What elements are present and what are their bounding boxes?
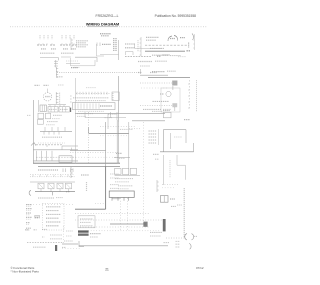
power cord plug [79, 241, 84, 246]
winding dashes [115, 178, 133, 180]
terminal dash box [110, 184, 119, 186]
evap fan motor box [161, 88, 180, 112]
wire into junction [70, 149, 106, 151]
left supply bus [33, 100, 35, 163]
compressor feed line [35, 191, 75, 193]
dark junction blob [143, 222, 147, 227]
power cord line [62, 243, 78, 245]
cold control box [37, 120, 43, 125]
air duct inner wall [170, 133, 172, 149]
run winding label [77, 113, 93, 115]
mullion heater label [152, 54, 168, 56]
terminal block 1 [48, 107, 58, 112]
notes text block [76, 40, 88, 42]
overload protector rail [30, 181, 75, 183]
ladder top row [36, 144, 62, 146]
defrost timer motor dashed circle [43, 93, 51, 101]
air duct box left [162, 130, 164, 152]
wire freezer to center [75, 56, 97, 58]
evap right pin bracket [188, 80, 190, 110]
suction line text [108, 113, 117, 115]
dashed drop G [143, 122, 145, 228]
relay coil stub [70, 167, 72, 178]
air duct box top [163, 129, 186, 131]
svg-text:WIRING DIAGRAM: WIRING DIAGRAM [86, 23, 119, 27]
defrost limit switch box 1 [38, 113, 44, 119]
start device curve [29, 190, 31, 195]
wire to start relay [110, 223, 146, 225]
start relay dark box [78, 230, 89, 232]
timer bottom wire [75, 113, 165, 115]
ice maker mold heater text [180, 37, 185, 39]
dotted row under bridge [100, 135, 128, 137]
heater ladder rail 3 [33, 160, 78, 162]
capillary crosses [116, 152, 122, 154]
evap text row [153, 100, 169, 102]
thermostat comb [40, 130, 72, 132]
fresh food lamp connector [125, 43, 135, 45]
right dashes column [169, 160, 171, 178]
light socket ladder [55, 60, 57, 67]
legend connector symbol [35, 217, 40, 219]
ice maker feed wire [135, 48, 162, 50]
wire right drop E [116, 120, 118, 163]
air duct bottom line [160, 151, 194, 153]
legend footnote text [33, 246, 46, 248]
ice maker dashed supply wire [145, 44, 188, 46]
legend extra row [25, 229, 29, 231]
timer body hatch [74, 103, 76, 108]
harness stub text [57, 76, 63, 78]
capacitor plate curve 2 [191, 234, 193, 240]
contact box crosses [39, 184, 70, 188]
freezer lamp component [96, 43, 98, 47]
defrost thermostat crosses [163, 110, 170, 112]
control pin row [76, 93, 110, 95]
stub wire right [112, 198, 120, 200]
wire right vertical to control [118, 40, 120, 60]
evap dotted row 2 [141, 87, 169, 89]
dotted row 231 [80, 230, 160, 232]
wire center drop A [74, 115, 76, 163]
wire center drop B dotted [88, 112, 90, 163]
wire left drop [70, 58, 72, 66]
evap fan motor circle [166, 91, 171, 96]
right pin bracket [194, 34, 196, 50]
refrigerator door switch leads [63, 48, 68, 50]
air duct box right [185, 130, 187, 143]
evaporator fan underline [148, 76, 190, 78]
compressor terminal text [38, 169, 58, 171]
legend dashed box [42, 203, 64, 230]
timer motor terminal strip [55, 92, 57, 104]
dotted row above bus 1 [70, 152, 118, 154]
wire strong drop [105, 166, 107, 209]
freezer light label text [100, 33, 111, 35]
thermostat terminal text [42, 136, 62, 138]
left terminal strip ticks [70, 38, 72, 50]
terminal board hatched box [40, 105, 46, 111]
dotted jog [129, 128, 141, 130]
dotted drop H [120, 198, 122, 230]
ladder drops [36, 151, 38, 161]
dashed drop F [128, 122, 130, 175]
compressor windings boxes [115, 168, 121, 174]
evap rotated note column [196, 80, 198, 112]
defrost heater box [59, 156, 72, 163]
evaporator fan upper rail [140, 74, 168, 76]
contact box drops [40, 189, 42, 192]
ladder hook top [31, 143, 36, 146]
branch below timer [107, 114, 109, 129]
dotted drop I [127, 198, 129, 230]
wire color tags [35, 84, 40, 86]
freezer light wire run [40, 57, 59, 59]
refrigerator light harness label [61, 52, 74, 54]
ice maker label text [146, 36, 159, 38]
legend dot mark [42, 236, 44, 238]
wire branch right [66, 63, 80, 65]
compressor shell box [109, 191, 134, 197]
wire color legend rows [26, 204, 32, 206]
dotted drop J rotated text [183, 188, 185, 237]
legend box text rows [46, 206, 61, 208]
refrigerator door switch contacts [60, 44, 70, 46]
title underline rule [87, 26, 118, 28]
wire to control top [100, 54, 119, 56]
run capacitor box [160, 196, 168, 203]
legend dark bar [55, 245, 57, 251]
pin list text [149, 130, 157, 132]
svg-text:FRS26ZRG—L: FRS26ZRG—L [96, 14, 119, 18]
dashes row [120, 128, 133, 130]
relay lead dashes [90, 233, 101, 235]
start relay mark [81, 174, 89, 176]
ground dots [62, 248, 80, 250]
condenser fan box [78, 216, 95, 228]
control box right wire [118, 76, 120, 122]
marks column [86, 182, 88, 191]
lamp circuit second row [138, 61, 152, 63]
relay left dotted [63, 226, 65, 241]
dashed connector rows right [110, 173, 119, 175]
capacitor terminal stack [176, 240, 181, 242]
mullion heater bus line [145, 50, 185, 52]
evap dotted row 1 [140, 82, 172, 84]
capacitor plate curve 1 [185, 234, 187, 240]
neutral run long wire [79, 245, 168, 247]
dotted page rule left [10, 26, 86, 28]
label one quarter [71, 67, 78, 69]
dotted row below timer [100, 126, 135, 128]
main bus upper [33, 162, 120, 164]
evap text row 2 [143, 108, 161, 110]
dotted wire row [38, 142, 65, 144]
wire freezer lamp down [96, 44, 98, 56]
dotted row 227 [80, 226, 150, 228]
wire code tag right [58, 84, 64, 86]
wire center drop C [105, 122, 107, 166]
overload text [171, 205, 176, 207]
crossed marks [184, 119, 190, 121]
capacitor text rows [150, 231, 162, 233]
timer side connector [112, 92, 119, 100]
freezer door switch contacts [37, 44, 47, 46]
long dotted harness wire [57, 72, 140, 74]
terminal board strip [48, 104, 66, 106]
wire center drop D [118, 122, 120, 163]
evaporator fan label [140, 69, 142, 74]
limit switch codes [52, 118, 60, 120]
right branch wire 1 [162, 155, 164, 185]
wire elbow below timer [84, 112, 86, 118]
dotted row 213 [75, 213, 150, 215]
freezer door switch terminal labels [39, 35, 41, 39]
overload note text [164, 242, 170, 244]
lamp circuit third row [140, 65, 150, 67]
bridge wire vertical [88, 127, 90, 133]
ice maker motor symbol [168, 36, 172, 41]
contact box row [38, 183, 44, 189]
heater rail dashes [152, 110, 162, 112]
dotted comb row [30, 173, 75, 175]
refrigerator light wire run [61, 56, 71, 58]
defrost limit switch box 2 [45, 113, 50, 119]
terminal block 2 [59, 107, 69, 112]
evap dotted row 3 [140, 104, 172, 106]
dotted row low [27, 204, 75, 206]
strong corner wire [75, 208, 106, 210]
dotted row above bus 2 [70, 156, 118, 158]
svg-text:21: 21 [105, 267, 109, 271]
ice maker shutoff arm text [150, 47, 164, 49]
bracket right of windings [156, 180, 158, 192]
timer body box [73, 103, 116, 110]
dotted row 220 [75, 219, 165, 221]
right dotted rows [162, 183, 178, 185]
dotted row 203 [95, 202, 105, 204]
main bus lower [38, 165, 120, 167]
svg-text:Publication No. 5995351558: Publication No. 5995351558 [155, 14, 197, 18]
legend caption rows [50, 234, 62, 236]
ice maker bracket curve [192, 34, 194, 41]
capacitor wire dotted [166, 237, 185, 239]
vertical label moisture control [113, 38, 115, 51]
control box left wire [74, 78, 76, 115]
heater ladder rail 1 [33, 149, 78, 151]
pin row note [86, 87, 96, 89]
timer pin text below [78, 110, 104, 112]
dotted page rule right [119, 26, 207, 28]
freezer door switch leads [41, 48, 46, 50]
svg-text:07/12: 07/12 [196, 266, 204, 270]
harness bracket [55, 67, 57, 78]
cold control codes [46, 124, 55, 126]
heater ladder mid row [36, 156, 76, 158]
left edge tag [27, 114, 31, 116]
wire top right corner [132, 120, 165, 122]
svg-text:* Non-Illustrated Parts: * Non-Illustrated Parts [11, 270, 40, 274]
legend dotted underline [27, 242, 64, 244]
dark terminal bar [163, 219, 166, 231]
compressor pins [111, 197, 113, 200]
refrigerator door switch terminal labels [61, 35, 63, 39]
connector pin column [140, 37, 142, 56]
condenser curve right [189, 243, 191, 249]
mullion text row right [178, 56, 186, 58]
right branch wire 2 [176, 155, 178, 165]
air duct step right [193, 143, 195, 152]
control pin numbers [73, 97, 109, 99]
asterisk marks [153, 153, 159, 155]
control terminal codes [76, 100, 106, 102]
winding dashes lower [118, 185, 133, 187]
lamp circuit dashed row [125, 56, 152, 58]
freezer light harness label [40, 52, 55, 54]
dark stub left of timer [70, 108, 72, 112]
bridge wire horizontal [89, 132, 129, 134]
compressor lead dashes [38, 197, 54, 199]
